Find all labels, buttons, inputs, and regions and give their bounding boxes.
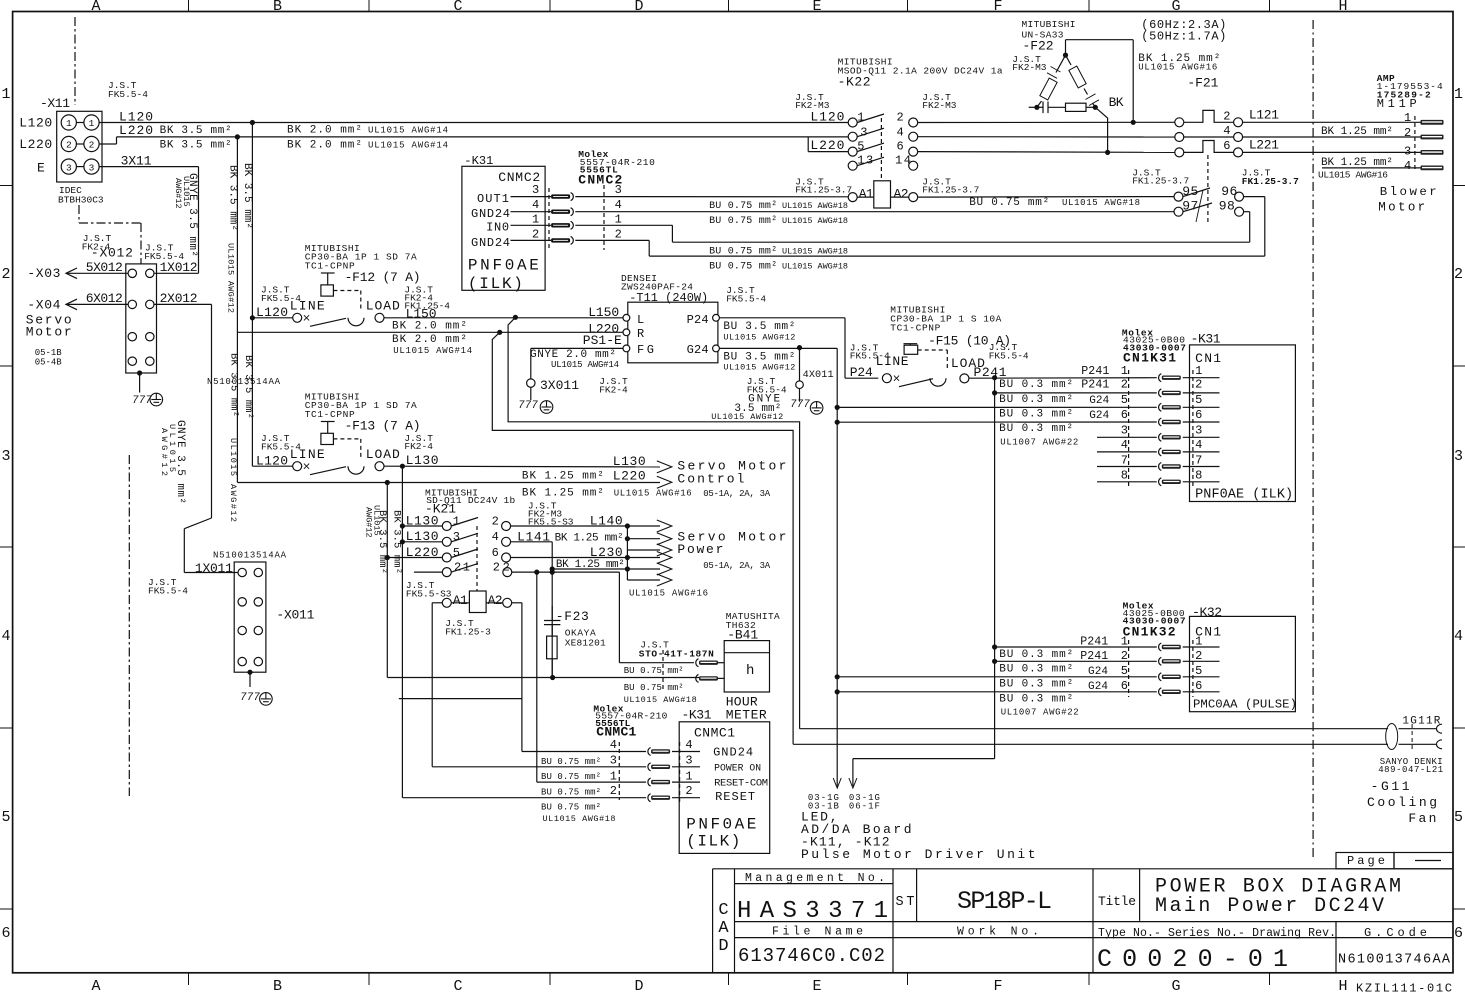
svg-text:L220: L220 [810, 138, 844, 153]
svg-text:FK1.25-3.7: FK1.25-3.7 [1132, 176, 1189, 187]
svg-text:C: C [453, 978, 462, 992]
svg-text:UL1015 AWG#14: UL1015 AWG#14 [368, 141, 448, 151]
svg-text:L140: L140 [590, 514, 623, 529]
svg-text:L120: L120 [256, 305, 288, 320]
svg-text:3: 3 [610, 753, 617, 767]
svg-text:UL1015 AWG#16: UL1015 AWG#16 [1318, 170, 1388, 181]
svg-text:1: 1 [615, 213, 622, 227]
svg-text:UL1015 AWG#12: UL1015 AWG#12 [228, 438, 238, 522]
svg-text:1: 1 [610, 770, 617, 784]
svg-text:Type No.- Series No.- Drawing: Type No.- Series No.- Drawing Rev. [1098, 927, 1336, 940]
svg-text:H: H [1338, 0, 1347, 15]
svg-text:6: 6 [492, 546, 499, 560]
svg-text:UL1015 AWG#12: UL1015 AWG#12 [226, 243, 236, 313]
svg-text:GNYE 3.5 mm²: GNYE 3.5 mm² [186, 173, 198, 257]
svg-text:2: 2 [1404, 126, 1411, 140]
svg-text:-F13 (7 A): -F13 (7 A) [345, 419, 421, 434]
svg-text:UL1015 AWG#14: UL1015 AWG#14 [393, 346, 472, 356]
svg-text:FK2-M3: FK2-M3 [1012, 62, 1047, 73]
svg-text:95: 95 [1182, 184, 1198, 199]
svg-text:P241: P241 [1081, 379, 1109, 392]
svg-text:BK 2.0 mm²: BK 2.0 mm² [392, 321, 467, 333]
svg-text:D: D [634, 0, 643, 15]
svg-text:BK 1.25 mm²: BK 1.25 mm² [1321, 157, 1393, 169]
svg-text:7: 7 [1121, 454, 1128, 468]
svg-text:BK 3.5 mm²: BK 3.5 mm² [227, 165, 239, 231]
svg-text:1: 1 [1454, 86, 1463, 103]
svg-text:N510013514AA: N510013514AA [213, 551, 287, 561]
svg-text:2X012: 2X012 [160, 291, 198, 306]
svg-text:L120: L120 [256, 454, 288, 469]
svg-text:Fan: Fan [1408, 811, 1438, 826]
svg-text:L130: L130 [406, 529, 439, 544]
svg-text:1: 1 [1, 86, 10, 103]
svg-text:777: 777 [790, 399, 810, 411]
svg-text:UL1015 AWG#14: UL1015 AWG#14 [551, 360, 619, 370]
svg-text:UL1015 AWG#18: UL1015 AWG#18 [782, 247, 848, 257]
svg-text:BU 0.75 mm²: BU 0.75 mm² [541, 803, 601, 813]
svg-text:-X011: -X011 [276, 608, 314, 623]
svg-text:A1: A1 [859, 187, 874, 202]
svg-text:STO-41T-187N: STO-41T-187N [639, 649, 714, 660]
svg-text:4: 4 [897, 126, 904, 140]
svg-text:4: 4 [610, 738, 617, 752]
svg-text:-K31: -K31 [682, 707, 712, 722]
svg-text:BU 0.3 mm²: BU 0.3 mm² [999, 408, 1073, 420]
svg-text:1: 1 [1121, 364, 1128, 378]
svg-text:6: 6 [1195, 679, 1202, 693]
svg-text:3: 3 [615, 183, 622, 197]
svg-text:3: 3 [1, 448, 10, 465]
svg-text:777: 777 [518, 400, 538, 412]
svg-text:BK 3.5 mm²: BK 3.5 mm² [160, 140, 232, 152]
svg-text:LOAD: LOAD [366, 299, 400, 314]
svg-text:L141: L141 [517, 529, 550, 544]
svg-text:7: 7 [1195, 454, 1202, 468]
svg-text:1: 1 [1195, 364, 1202, 378]
svg-text:BK 2.0 mm²: BK 2.0 mm² [287, 140, 362, 152]
svg-text:2: 2 [1121, 378, 1128, 392]
svg-text:L150: L150 [406, 307, 437, 322]
svg-text:2: 2 [615, 228, 622, 242]
svg-text:BU 0.3 mm²: BU 0.3 mm² [999, 379, 1073, 391]
svg-text:L220: L220 [119, 123, 153, 138]
svg-text:G: G [1171, 978, 1180, 992]
svg-text:E: E [812, 978, 821, 992]
svg-text:UL1015 AWG#18: UL1015 AWG#18 [624, 695, 697, 705]
svg-text:4: 4 [1223, 124, 1230, 138]
svg-text:UL1015 AWG#18: UL1015 AWG#18 [782, 216, 848, 226]
svg-text:6X012: 6X012 [86, 291, 123, 306]
svg-text:D: D [634, 978, 643, 992]
svg-text:1: 1 [1404, 111, 1411, 125]
svg-text:4: 4 [492, 530, 499, 544]
svg-text:2: 2 [685, 784, 692, 798]
svg-text:5: 5 [1121, 664, 1128, 678]
svg-text:4X011: 4X011 [803, 370, 834, 381]
svg-text:FK1.25-3.7: FK1.25-3.7 [1242, 176, 1299, 187]
svg-text:E: E [37, 161, 45, 176]
svg-text:BU 0.3 mm²: BU 0.3 mm² [999, 394, 1073, 406]
svg-text:P241: P241 [974, 365, 1007, 380]
svg-text:-F22: -F22 [1023, 39, 1054, 54]
svg-text:LINE: LINE [290, 447, 325, 462]
svg-text:1: 1 [857, 111, 864, 125]
svg-text:4: 4 [1404, 159, 1411, 173]
svg-text:A2: A2 [894, 187, 909, 202]
svg-text:1X011: 1X011 [195, 561, 233, 576]
svg-text:A1: A1 [453, 593, 468, 608]
svg-text:2: 2 [897, 111, 904, 125]
svg-text:BU 0.3 mm²: BU 0.3 mm² [999, 423, 1073, 435]
svg-text:L120: L120 [810, 110, 844, 125]
svg-text:97: 97 [1182, 199, 1198, 214]
svg-text:File Name: File Name [772, 926, 863, 939]
svg-text:RESET: RESET [715, 790, 755, 804]
svg-text:3: 3 [66, 162, 72, 173]
svg-text:4: 4 [1454, 628, 1463, 645]
svg-text:RESET-COM: RESET-COM [714, 777, 768, 789]
svg-text:FK5.5-4: FK5.5-4 [726, 294, 766, 305]
svg-text:L220: L220 [406, 545, 439, 560]
svg-text:D: D [718, 937, 728, 956]
svg-text:Motor: Motor [26, 325, 74, 340]
svg-text:-F23: -F23 [556, 609, 589, 624]
svg-text:G24: G24 [1088, 666, 1108, 678]
svg-text:Title: Title [1098, 894, 1136, 909]
svg-text:5X012: 5X012 [86, 260, 123, 275]
svg-text:P24: P24 [687, 313, 709, 327]
svg-text:FK5.5-4: FK5.5-4 [148, 586, 188, 597]
svg-text:UL1015 AWG#18: UL1015 AWG#18 [782, 262, 848, 272]
svg-text:BU 0.3 mm²: BU 0.3 mm² [999, 694, 1073, 706]
svg-text:1: 1 [685, 770, 692, 784]
svg-text:FK2-4: FK2-4 [599, 385, 628, 396]
svg-text:2: 2 [1454, 266, 1463, 283]
svg-text:FK5.5-4: FK5.5-4 [108, 89, 148, 100]
svg-text:8: 8 [1195, 469, 1202, 483]
svg-text:LINE: LINE [876, 354, 909, 369]
svg-text:4: 4 [1121, 438, 1128, 452]
svg-text:BK 2.0 mm²: BK 2.0 mm² [287, 125, 362, 137]
svg-text:LINE: LINE [290, 299, 325, 314]
svg-text:2: 2 [1121, 649, 1128, 663]
svg-text:A2: A2 [488, 593, 503, 608]
svg-text:-K31: -K31 [1191, 332, 1221, 347]
svg-text:4: 4 [615, 198, 622, 212]
svg-text:21: 21 [454, 560, 470, 574]
svg-text:3: 3 [1195, 424, 1202, 438]
svg-text:UL1007 AWG#22: UL1007 AWG#22 [1000, 438, 1078, 448]
svg-text:6: 6 [1454, 925, 1463, 942]
svg-text:05-1B: 05-1B [35, 348, 63, 358]
svg-text:AWG#12: AWG#12 [173, 178, 183, 209]
svg-text:GND24: GND24 [471, 207, 510, 221]
svg-text:(50Hz:1.7A): (50Hz:1.7A) [1141, 29, 1226, 43]
svg-text:3X011: 3X011 [540, 378, 579, 393]
svg-text:BK 1.25 mm²: BK 1.25 mm² [556, 559, 625, 571]
svg-text:L230: L230 [590, 545, 623, 560]
svg-text:L: L [637, 313, 644, 327]
svg-text:-T11 (240W): -T11 (240W) [629, 291, 708, 305]
svg-text:6: 6 [1223, 139, 1230, 153]
svg-text:METER: METER [726, 708, 767, 723]
svg-text:3: 3 [453, 530, 460, 544]
svg-text:BU 0.75 mm²: BU 0.75 mm² [709, 216, 777, 227]
svg-text:PMC0AA (PULSE): PMC0AA (PULSE) [1193, 698, 1297, 712]
svg-text:UL1015 AWG#12: UL1015 AWG#12 [723, 362, 795, 372]
svg-text:-K22: -K22 [838, 75, 871, 90]
svg-text:5: 5 [1195, 393, 1202, 407]
svg-text:-F21: -F21 [1187, 76, 1218, 91]
svg-text:BU 0.3 mm²: BU 0.3 mm² [999, 679, 1073, 691]
svg-text:FK5.5-S3: FK5.5-S3 [406, 589, 452, 600]
svg-text:BU 0.3 mm²: BU 0.3 mm² [999, 649, 1073, 661]
svg-text:L130: L130 [613, 454, 646, 469]
svg-text:SP18P-L: SP18P-L [957, 887, 1052, 916]
svg-text:FK5.5-S3: FK5.5-S3 [528, 517, 574, 528]
svg-text:FK1.25-3.7: FK1.25-3.7 [922, 185, 979, 196]
svg-text:P24: P24 [850, 365, 873, 380]
svg-text:2: 2 [1, 266, 10, 283]
svg-text:FK1.25-3: FK1.25-3 [445, 627, 491, 638]
svg-text:F: F [993, 0, 1002, 15]
svg-text:BU 0.75 mm²: BU 0.75 mm² [969, 197, 1049, 209]
svg-text:L121: L121 [1249, 108, 1279, 123]
svg-text:Control: Control [677, 472, 746, 487]
svg-text:-X012: -X012 [91, 246, 133, 261]
svg-text:-X11: -X11 [40, 96, 70, 111]
svg-text:A: A [91, 0, 100, 15]
svg-text:G24: G24 [687, 343, 709, 357]
svg-text:3: 3 [1121, 424, 1128, 438]
svg-text:IN0: IN0 [486, 221, 509, 235]
svg-text:B: B [273, 0, 282, 15]
svg-text:FK1.25-3.7: FK1.25-3.7 [795, 185, 852, 196]
svg-text:P241: P241 [1081, 365, 1109, 378]
svg-text:4: 4 [685, 738, 692, 752]
svg-text:UL1015 AWG#18: UL1015 AWG#18 [782, 201, 848, 211]
svg-text:2: 2 [1223, 110, 1230, 124]
svg-text:BU 0.75 mm²: BU 0.75 mm² [624, 683, 684, 693]
svg-text:UL1015 AWG#18: UL1015 AWG#18 [543, 814, 616, 824]
svg-text:-X03: -X03 [27, 266, 60, 281]
svg-text:1: 1 [532, 213, 539, 227]
svg-text:Power: Power [677, 542, 725, 557]
svg-text:GNYE 3.5 mm²: GNYE 3.5 mm² [174, 420, 186, 504]
svg-text:BU 0.75 mm²: BU 0.75 mm² [709, 247, 777, 258]
svg-text:BK: BK [1109, 95, 1124, 110]
svg-text:L120: L120 [19, 116, 52, 131]
svg-text:UL1015 AWG#16: UL1015 AWG#16 [1138, 62, 1217, 72]
svg-text:BK 3.5 mm²: BK 3.5 mm² [376, 510, 388, 574]
svg-text:6: 6 [1, 925, 10, 942]
svg-text:BU 0.75 mm²: BU 0.75 mm² [709, 201, 777, 212]
svg-text:C: C [453, 0, 462, 15]
svg-text:Pulse Motor Driver Unit: Pulse Motor Driver Unit [801, 847, 1037, 862]
svg-text:OUT1: OUT1 [477, 192, 509, 206]
svg-text:PNF0AE (ILK): PNF0AE (ILK) [1195, 488, 1293, 503]
svg-text:BK 1.25 mm²: BK 1.25 mm² [522, 487, 604, 499]
svg-text:BU 0.75 mm²: BU 0.75 mm² [709, 262, 777, 273]
svg-text:5: 5 [1195, 664, 1202, 678]
svg-text:05-1A, 2A, 3A: 05-1A, 2A, 3A [703, 489, 771, 499]
svg-text:2: 2 [89, 140, 95, 151]
svg-text:4: 4 [532, 198, 539, 212]
svg-text:5: 5 [1, 809, 10, 826]
svg-text:BU 0.3 mm²: BU 0.3 mm² [999, 664, 1073, 676]
svg-text:GND24: GND24 [713, 746, 753, 760]
svg-text:L130: L130 [406, 453, 439, 468]
svg-text:05-1A, 2A, 3A: 05-1A, 2A, 3A [703, 561, 771, 571]
svg-text:L130: L130 [406, 514, 439, 529]
svg-text:489-047-L21: 489-047-L21 [1378, 765, 1443, 775]
svg-text:4: 4 [1, 628, 10, 645]
svg-text:4: 4 [1195, 438, 1202, 452]
svg-text:3: 3 [685, 753, 692, 767]
svg-text:3: 3 [532, 183, 539, 197]
svg-text:-X04: -X04 [27, 297, 60, 312]
svg-text:BU 3.5 mm²: BU 3.5 mm² [723, 321, 795, 333]
svg-text:POWER ON: POWER ON [714, 763, 761, 774]
svg-text:(ILK): (ILK) [468, 275, 523, 293]
svg-text:777: 777 [240, 692, 260, 704]
svg-text:Motor: Motor [1378, 201, 1428, 215]
svg-text:P241: P241 [1080, 635, 1108, 648]
svg-text:L220: L220 [19, 137, 52, 152]
svg-text:BK 1.25 mm²: BK 1.25 mm² [522, 471, 604, 483]
svg-text:1: 1 [453, 515, 460, 529]
svg-text:2: 2 [610, 784, 617, 798]
svg-text:LOAD: LOAD [366, 447, 400, 462]
svg-text:1: 1 [1195, 634, 1202, 648]
svg-text:1: 1 [89, 118, 95, 129]
svg-text:h: h [746, 663, 754, 679]
svg-text:98: 98 [1219, 199, 1235, 214]
svg-text:2: 2 [1195, 649, 1202, 663]
svg-text:1: 1 [1121, 634, 1128, 648]
svg-text:Cooling: Cooling [1367, 795, 1439, 810]
svg-text:6: 6 [897, 140, 904, 154]
svg-text:1: 1 [66, 118, 72, 129]
svg-text:L220: L220 [613, 469, 646, 484]
svg-text:5: 5 [857, 140, 864, 154]
svg-text:P241: P241 [1080, 650, 1108, 663]
svg-text:05-4B: 05-4B [35, 358, 63, 368]
svg-text:UL1015 AWG#12: UL1015 AWG#12 [711, 412, 783, 422]
svg-text:BK 2.0 mm²: BK 2.0 mm² [392, 334, 467, 346]
svg-text:5: 5 [1121, 393, 1128, 407]
svg-text:-K32: -K32 [1192, 605, 1222, 620]
svg-text:FK2-4: FK2-4 [404, 441, 433, 452]
svg-text:UL1015 AWG#12: UL1015 AWG#12 [723, 332, 795, 342]
svg-text:BK 3.5 mm²: BK 3.5 mm² [160, 125, 232, 137]
svg-text:G24: G24 [1089, 410, 1109, 422]
svg-text:6: 6 [1121, 679, 1128, 693]
svg-text:2: 2 [492, 515, 499, 529]
svg-text:BK 1.25 mm²: BK 1.25 mm² [1321, 126, 1393, 138]
svg-text:13: 13 [857, 154, 873, 168]
svg-text:GND24: GND24 [471, 236, 510, 250]
svg-text:UL1015 AWG#18: UL1015 AWG#18 [1062, 198, 1140, 208]
svg-text:BU 0.75 mm²: BU 0.75 mm² [541, 757, 601, 767]
svg-text:06-1F: 06-1F [849, 802, 880, 812]
svg-text:F: F [993, 978, 1002, 992]
svg-text:N610013746AA: N610013746AA [1338, 953, 1451, 968]
svg-text:2: 2 [1195, 378, 1202, 392]
svg-text:TC1-CPNP: TC1-CPNP [890, 323, 940, 334]
svg-text:1G11R: 1G11R [1402, 716, 1440, 728]
svg-text:6: 6 [1121, 408, 1128, 422]
svg-text:2: 2 [66, 140, 72, 151]
svg-text:(ILK): (ILK) [686, 833, 740, 851]
svg-text:-F12 (7 A): -F12 (7 A) [345, 270, 421, 285]
svg-text:BK 3.5 mm²: BK 3.5 mm² [241, 163, 253, 229]
svg-text:UL1015 AWG#14: UL1015 AWG#14 [368, 126, 448, 136]
svg-text:FK2-M3: FK2-M3 [922, 100, 957, 111]
svg-text:3: 3 [1454, 448, 1463, 465]
svg-text:6: 6 [1195, 408, 1202, 422]
svg-text:AWG#12: AWG#12 [364, 507, 374, 538]
svg-text:FK5.5-4: FK5.5-4 [989, 351, 1029, 362]
svg-text:XE81201: XE81201 [565, 638, 606, 649]
svg-text:PS1-E: PS1-E [583, 333, 622, 348]
svg-text:G24: G24 [1089, 395, 1109, 407]
svg-text:UL1007 AWG#22: UL1007 AWG#22 [1001, 708, 1079, 718]
svg-text:5: 5 [1454, 809, 1463, 826]
svg-text:A: A [718, 919, 729, 938]
svg-text:BK 1.25 mm²: BK 1.25 mm² [555, 532, 624, 544]
svg-text:3X11: 3X11 [121, 154, 152, 169]
svg-text:96: 96 [1221, 184, 1237, 199]
svg-text:777: 777 [132, 395, 152, 407]
svg-text:R: R [637, 327, 644, 341]
svg-text:BU 0.75 mm²: BU 0.75 mm² [541, 787, 601, 797]
svg-text:2: 2 [532, 228, 539, 242]
svg-text:1X012: 1X012 [160, 260, 198, 275]
svg-text:E: E [812, 0, 821, 15]
svg-text:C: C [718, 901, 728, 920]
svg-text:G: G [1171, 0, 1180, 15]
svg-text:UL1015 AWG#16: UL1015 AWG#16 [614, 488, 692, 498]
svg-text:CNMC1: CNMC1 [694, 726, 735, 741]
svg-text:L150: L150 [588, 305, 619, 320]
svg-text:3: 3 [1404, 145, 1411, 159]
svg-text:H: H [1338, 978, 1347, 992]
svg-text:BK 3.5 mm²: BK 3.5 mm² [391, 510, 403, 574]
svg-text:BK 3.5 mm²: BK 3.5 mm² [228, 353, 240, 417]
svg-text:Blower: Blower [1380, 185, 1440, 199]
svg-text:14: 14 [895, 154, 911, 168]
svg-text:BK 3.5 mm²: BK 3.5 mm² [242, 355, 254, 419]
svg-text:613746C0.C02: 613746C0.C02 [738, 945, 885, 967]
svg-text:3: 3 [89, 162, 95, 173]
svg-text:UL1015 AWG#16: UL1015 AWG#16 [629, 589, 708, 599]
svg-text:B: B [273, 978, 282, 992]
svg-text:BTBH30C3: BTBH30C3 [58, 194, 104, 205]
svg-text:KZIL111-01C: KZIL111-01C [1356, 982, 1452, 992]
svg-text:BU 0.75 mm²: BU 0.75 mm² [624, 666, 684, 676]
svg-text:-K31: -K31 [464, 154, 493, 168]
svg-text:L221: L221 [1249, 137, 1279, 152]
svg-text:BU 0.75 mm²: BU 0.75 mm² [541, 772, 601, 782]
svg-text:3: 3 [860, 126, 867, 140]
svg-text:G24: G24 [1088, 681, 1108, 693]
svg-text:8: 8 [1121, 469, 1128, 483]
svg-text:5: 5 [453, 546, 460, 560]
svg-text:-B41: -B41 [727, 628, 758, 643]
svg-text:A: A [91, 978, 100, 992]
